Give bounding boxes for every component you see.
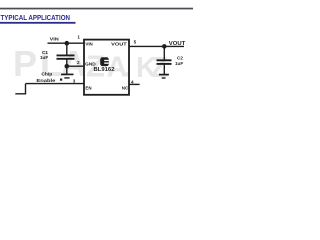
svg-text:1uF: 1uF bbox=[40, 55, 48, 60]
svg-text:1: 1 bbox=[77, 35, 80, 40]
wire pin4 NC stub bbox=[129, 83, 140, 85]
wire C2 bottom lead bbox=[163, 65, 165, 74]
wire enable to pin3 bbox=[26, 83, 85, 85]
pin number 2 bbox=[77, 60, 80, 65]
svg-text:5: 5 bbox=[134, 39, 137, 44]
wire C1 top lead bbox=[66, 43, 68, 54]
capacitor C1 bbox=[57, 54, 75, 56]
capacitor C2 bbox=[157, 59, 172, 61]
node VOUT label bbox=[169, 41, 186, 47]
svg-text:GND: GND bbox=[85, 62, 96, 67]
pin number 1 bbox=[77, 35, 80, 40]
svg-text:P: P bbox=[13, 43, 37, 84]
step waveform symbol bbox=[15, 84, 25, 94]
node junction dot C1/GND pin bbox=[65, 64, 70, 69]
wire pin5 VOUT bbox=[129, 45, 184, 47]
node Chip Enable label bbox=[36, 71, 75, 83]
svg-text:Chip: Chip bbox=[41, 71, 52, 76]
top rule bbox=[0, 8, 193, 10]
pin number 4 bbox=[131, 80, 134, 85]
wire C2 top lead bbox=[163, 46, 165, 59]
op-amp U1 BL9162 box bbox=[84, 40, 129, 95]
node junction dot VOUT/C2 bbox=[162, 44, 167, 49]
svg-text:Z: Z bbox=[151, 52, 169, 84]
node junction dot VIN/C1 bbox=[65, 41, 70, 46]
wire to pin2 GND bbox=[67, 65, 84, 67]
ground symbol left bbox=[61, 73, 74, 75]
title underline bbox=[0, 22, 76, 24]
svg-text:C2: C2 bbox=[177, 55, 183, 60]
watermark letters bbox=[13, 43, 168, 84]
svg-text:2: 2 bbox=[77, 60, 80, 65]
svg-text:VIN: VIN bbox=[50, 37, 60, 42]
svg-text:NC: NC bbox=[122, 85, 129, 90]
svg-text:1uF: 1uF bbox=[175, 61, 183, 66]
svg-text:VOUT: VOUT bbox=[169, 41, 186, 47]
node VIN label bbox=[50, 37, 60, 42]
svg-text:Enable: Enable bbox=[36, 78, 56, 83]
pin number 5 bbox=[134, 39, 137, 44]
wire ground stem C1 bbox=[66, 66, 68, 74]
svg-text:VOUT: VOUT bbox=[111, 41, 127, 46]
wire C1 bottom lead bbox=[66, 60, 68, 67]
svg-text:3: 3 bbox=[73, 79, 76, 84]
svg-text:VIN: VIN bbox=[85, 41, 92, 46]
svg-text:BL9162: BL9162 bbox=[94, 67, 115, 73]
svg-text:TYPICAL APPLICATION: TYPICAL APPLICATION bbox=[1, 13, 71, 22]
ground symbol right bbox=[159, 74, 169, 76]
wire VIN to pin1 bbox=[48, 42, 85, 44]
svg-text:EN: EN bbox=[85, 85, 91, 90]
logo U1 bbox=[100, 57, 109, 66]
